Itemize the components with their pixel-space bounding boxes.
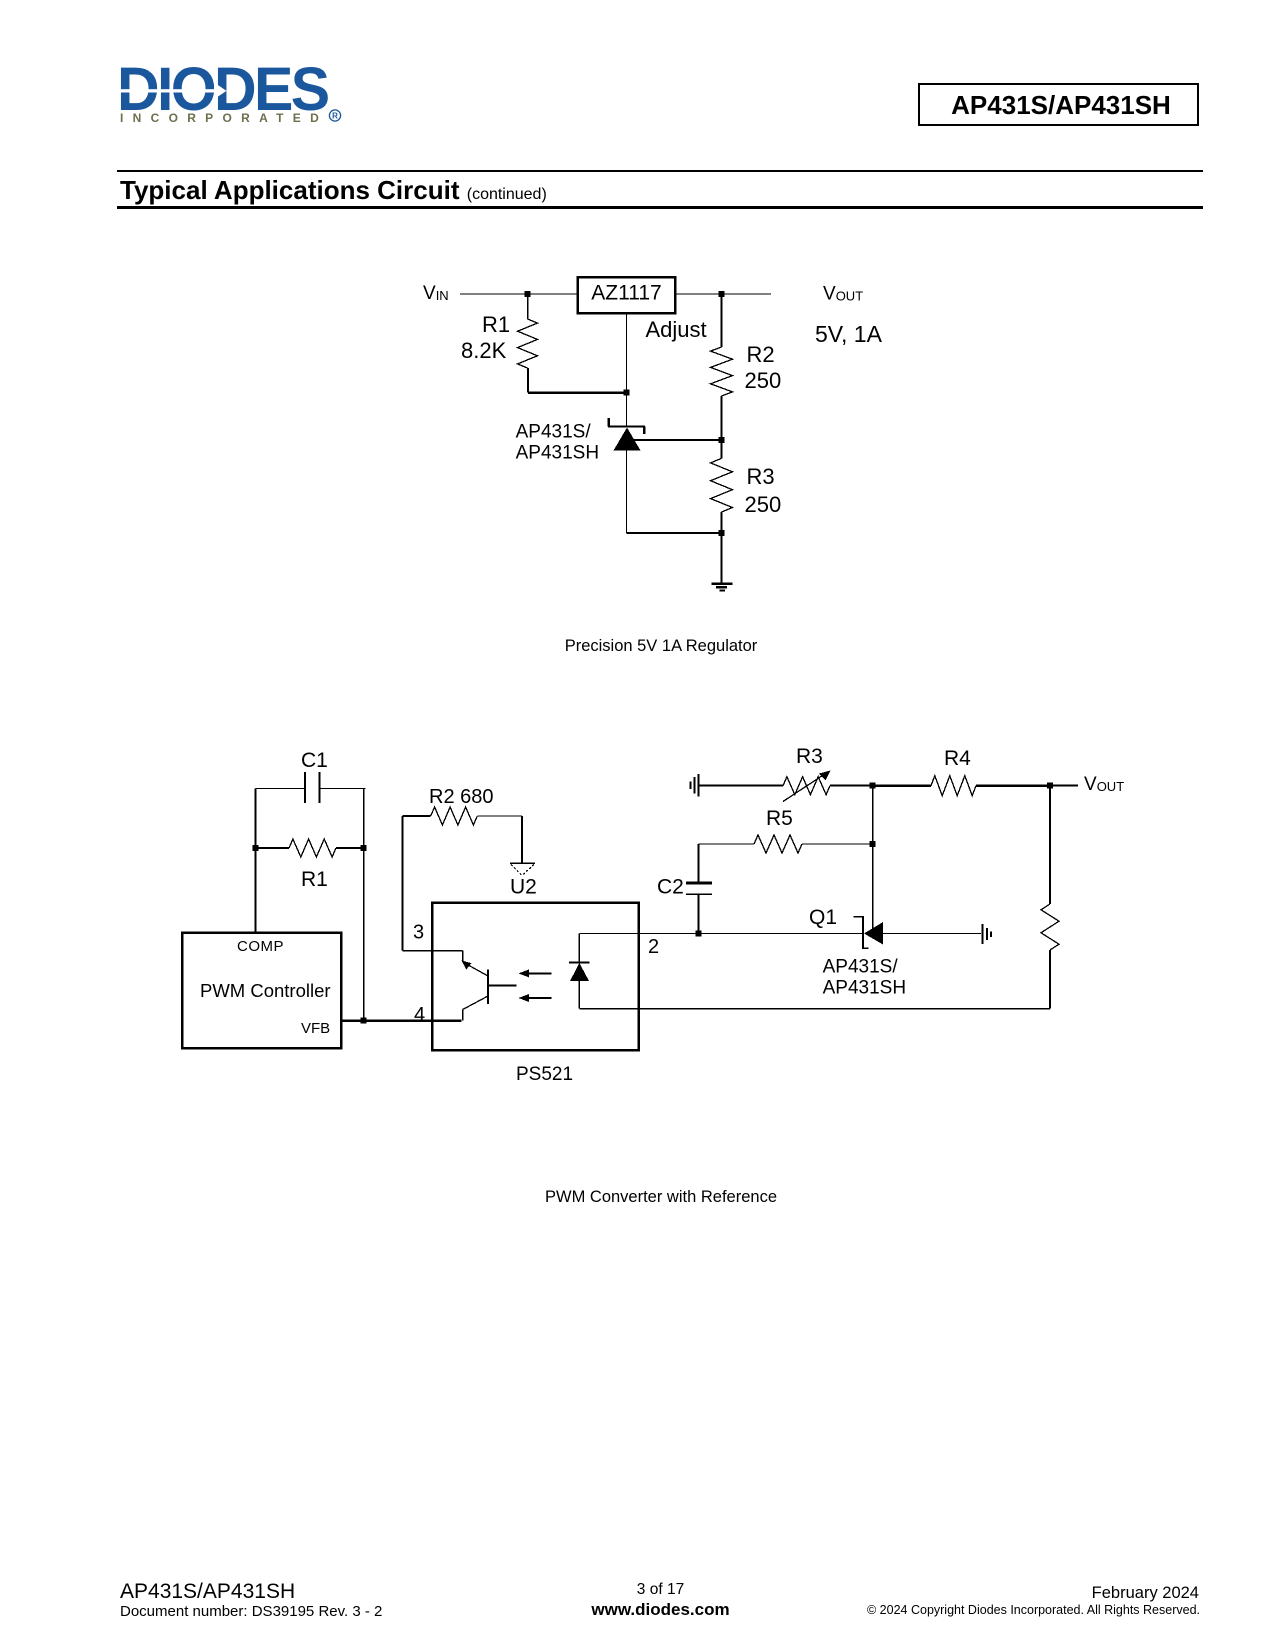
svg-text:COMP: COMP xyxy=(237,938,284,955)
svg-text:3: 3 xyxy=(413,922,424,944)
svg-text:8.2K: 8.2K xyxy=(461,338,507,363)
svg-text:Q1: Q1 xyxy=(809,906,837,929)
svg-text:U2: U2 xyxy=(510,876,537,899)
svg-text:Adjust: Adjust xyxy=(646,317,707,342)
svg-text:R5: R5 xyxy=(766,807,793,830)
svg-text:AP431SH: AP431SH xyxy=(516,443,599,464)
svg-text:2: 2 xyxy=(648,936,659,958)
svg-text:R2 680: R2 680 xyxy=(429,786,494,808)
svg-text:250: 250 xyxy=(745,492,782,517)
svg-text:VOUT: VOUT xyxy=(823,284,863,305)
svg-text:C1: C1 xyxy=(301,749,328,772)
svg-text:PWM Controller: PWM Controller xyxy=(200,980,331,1001)
svg-text:AZ1117: AZ1117 xyxy=(591,282,661,305)
svg-text:R4: R4 xyxy=(944,747,971,770)
svg-text:R1: R1 xyxy=(482,312,510,337)
svg-text:AP431S/: AP431S/ xyxy=(823,957,899,978)
svg-text:5V, 1A: 5V, 1A xyxy=(815,321,883,347)
svg-text:VOUT: VOUT xyxy=(1084,774,1124,795)
svg-text:R3: R3 xyxy=(796,745,823,768)
svg-text:R3: R3 xyxy=(747,464,775,489)
svg-text:R2: R2 xyxy=(747,342,775,367)
svg-text:250: 250 xyxy=(745,368,782,393)
svg-text:C2: C2 xyxy=(657,876,684,899)
svg-text:VFB: VFB xyxy=(301,1020,330,1037)
svg-text:R1: R1 xyxy=(301,868,328,891)
svg-text:4: 4 xyxy=(414,1004,425,1026)
svg-text:AP431S/: AP431S/ xyxy=(516,422,592,443)
svg-text:PS521: PS521 xyxy=(516,1064,573,1085)
svg-text:VIN: VIN xyxy=(423,283,449,304)
svg-text:AP431SH: AP431SH xyxy=(823,978,906,999)
